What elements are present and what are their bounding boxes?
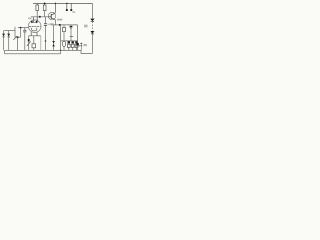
wire right edge vertical from rail to diode D3 — [91, 3, 93, 18]
resistor R5 (x=33.8) — [32, 36, 36, 51]
tube V1 plate bar and top leads — [31, 17, 38, 23]
diode D2 — [7, 31, 10, 51]
wire ground rail y=50.3 — [5, 49, 82, 51]
wire drop x=60.6 to ground rail — [60, 25, 62, 50]
node junction dot grid wire — [20, 27, 22, 29]
wire top supply rail — [33, 2, 92, 4]
resistor R1 — [36, 3, 39, 16]
label above emitter bus — [57, 19, 62, 21]
label right of C2 — [48, 24, 51, 25]
wire right join of lower rail — [60, 50, 62, 54]
wire grid-return x=40.8 (faint) — [40, 36, 42, 51]
diode D3 (right edge upper) — [90, 19, 94, 22]
wire emitter bus y=24.9 — [51, 24, 78, 26]
diode pair D5 bowtie (x=53.6) — [52, 25, 55, 50]
node dot on C2 lead — [45, 40, 47, 42]
tube V1 filament arc — [32, 28, 37, 31]
tube V1 envelope — [28, 20, 41, 33]
diode D1 — [2, 31, 5, 51]
capacitor C3 (x=71) — [70, 25, 74, 41]
capacitor C6 electrolytic (x=76.5) — [75, 41, 78, 50]
battery BT1 (x=78) — [76, 25, 83, 50]
node junction dot on rail at R2 — [44, 3, 46, 5]
wire lead x=17.6 to ground rail — [17, 37, 19, 50]
coil secondary vertical x=20.6 — [20, 28, 22, 38]
wire dashed link between D3 and D4 — [91, 22, 93, 32]
capacitor C4 electrolytic (x=68.8) — [67, 41, 70, 50]
transistor Q1 — [48, 3, 55, 19]
capacitor C1 (x=24.8) — [23, 28, 26, 51]
meter M1 (x=64) — [62, 41, 65, 50]
node junction dot on emitter bus — [59, 24, 61, 26]
node junction dot on tie — [17, 36, 19, 38]
tube V1 cathode bottom leads — [31, 32, 37, 36]
wire bus y=40.9 — [61, 40, 78, 42]
terminal stub T2 (x=71.2) — [70, 3, 72, 11]
wire left antenna bus y=30.6 — [4, 30, 16, 32]
wire base/grid bus y=16.8 — [31, 16, 49, 18]
wire left rail join — [4, 50, 6, 54]
wire bottom-right return jog — [81, 50, 92, 53]
label near tube — [28, 18, 32, 20]
label right mid (near dashed link) — [84, 25, 88, 28]
variable resistor R4 arm (x=28.7) — [27, 36, 31, 51]
label near battery — [83, 44, 87, 46]
node junction dot on ground rail — [60, 50, 62, 52]
wire emitter lead to bus — [54, 20, 56, 25]
tube V1 grid (dashed) — [29, 26, 40, 28]
resistor R2 — [43, 3, 46, 16]
wire tie y=37.2 — [15, 36, 21, 38]
diode D4 (right edge lower) — [90, 31, 94, 53]
node junction dot collector on rail — [55, 3, 57, 5]
wire grid input y=27.6 — [18, 27, 29, 29]
resistor R3 (x=64) — [63, 25, 66, 41]
capacitor C5 electrolytic (x=72.7) — [71, 41, 74, 50]
wire lower return rail y=53.8 — [5, 53, 61, 55]
label left of emitter bus — [50, 23, 53, 24]
coil/tuning branch vertical x=15 with wiper arrow — [13, 27, 16, 40]
label near terminal T2 — [72, 11, 75, 13]
node junction dot on base bus — [39, 16, 41, 18]
capacitor C2 (x=45.5) — [44, 17, 47, 51]
terminal stub T1 (x=66.8) — [66, 3, 68, 11]
node junction dot on rail at T1 — [66, 3, 68, 5]
wire cathode bus y=35.8 — [29, 35, 41, 37]
